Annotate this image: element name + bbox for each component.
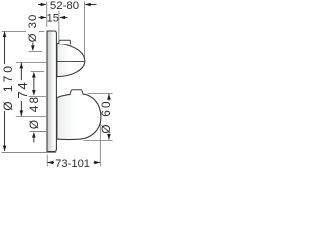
svg-text:52-80: 52-80 xyxy=(50,0,79,12)
extension line Ø30 top xyxy=(29,51,43,53)
extension line Ø170 top (left of plate, gap under Ø30 label) xyxy=(2,30,27,32)
dim Ø30 (arrows outside) xyxy=(31,43,36,96)
extension line 73-101 left xyxy=(46,155,48,167)
extension line Ø60 top xyxy=(88,92,113,94)
extension line 74 top xyxy=(16,61,46,63)
svg-text:Ø 48: Ø 48 xyxy=(27,95,41,129)
extension line Ø48 top xyxy=(29,95,47,97)
svg-text:73-101: 73-101 xyxy=(55,158,90,170)
extension line 74 bottom xyxy=(16,115,46,117)
upper knob tab xyxy=(59,40,71,44)
extension line knob1 tip (52-80 right) xyxy=(83,2,85,60)
dim line 74 xyxy=(20,63,24,116)
lower knob tab xyxy=(70,90,83,95)
dim line Ø60 xyxy=(107,94,111,140)
svg-text:Ø 60: Ø 60 xyxy=(99,99,113,133)
extension line Ø48 bottom xyxy=(30,131,47,133)
extension line 73-101 right (knob2 tip) xyxy=(99,121,101,167)
svg-text:Ø 170: Ø 170 xyxy=(1,63,15,111)
wall plate (side view, Ø170 escutcheon) xyxy=(47,31,56,152)
upper knob dome xyxy=(57,43,85,76)
extension line Ø170 bottom xyxy=(2,152,57,154)
lower knob dome xyxy=(57,94,101,140)
svg-text:Ø 30: Ø 30 xyxy=(27,14,39,43)
extension line tab front (15 right) xyxy=(58,11,60,40)
dim 73-101 xyxy=(48,161,101,165)
extension line Ø60 bottom xyxy=(84,139,113,141)
dim line Ø170 xyxy=(3,31,7,151)
extension line Ø30 bottom xyxy=(31,70,45,72)
upper knob chord line xyxy=(57,60,85,62)
dim 15 xyxy=(39,16,68,20)
svg-text:15: 15 xyxy=(47,12,59,24)
dim Ø48 bottom arrow xyxy=(32,132,36,143)
extension line plate-left top (52-80 / 15) xyxy=(46,2,48,28)
dim 52-80 xyxy=(38,3,97,7)
